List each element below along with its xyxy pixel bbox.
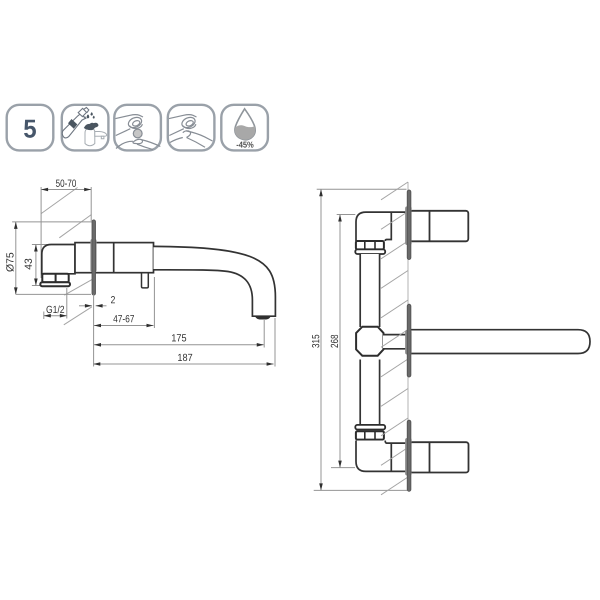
spout bar right view (410, 330, 590, 354)
top hub right view (405, 206, 412, 245)
dimension 315 (312, 189, 407, 490)
bottom union nut right view (356, 431, 384, 439)
extension line from plate down (93, 295, 95, 367)
middle wall plate right view (407, 304, 411, 377)
icon box 5-year (7, 105, 54, 151)
bottom collar right view (355, 425, 385, 430)
tee octagon right view (356, 327, 383, 356)
spout left view (154, 246, 276, 316)
main body cylinder left view (75, 243, 154, 273)
dimension 43 (25, 245, 49, 286)
wall plate left view (92, 220, 96, 295)
top handle cylinder right view (410, 211, 469, 242)
icon touch spout (168, 105, 215, 151)
icon water saving drop -45% (221, 105, 268, 151)
dimension 2 (plate thickness) (79, 296, 115, 308)
top union nut right view (356, 241, 384, 249)
dimension diameter 75 (6, 222, 93, 295)
dimension 175 (94, 320, 264, 348)
dimension 268 (331, 215, 356, 468)
wall hatching right view (381, 182, 408, 495)
union nut left view (42, 274, 68, 282)
wall hub left view (90, 239, 96, 272)
inlet flange left view (40, 282, 70, 286)
spout connector right view (383, 335, 406, 349)
riser pipe lower right view (360, 360, 379, 426)
bottom handle cylinder right view (410, 442, 469, 472)
set screw left view (142, 273, 149, 288)
icon cleaning spray (62, 105, 109, 151)
wall hatching left view (41, 188, 92, 325)
wall line right view (407, 182, 409, 491)
riser pipe upper right view (360, 254, 379, 327)
top wall plate right view (407, 190, 411, 260)
dimension 187 (93, 318, 275, 367)
icon aerator ball (114, 105, 161, 151)
dimension 47-67 (94, 277, 154, 328)
bottom wall plate right view (407, 420, 411, 491)
middle hub right view (405, 330, 412, 355)
bottom elbow right view (356, 441, 408, 472)
top elbow right view (356, 212, 408, 241)
elbow body left view (42, 245, 75, 274)
top collar right view (355, 249, 385, 254)
bottom hub right view (405, 438, 412, 476)
dimension G1/2 (44, 288, 67, 319)
dimension 50-70 (41, 180, 91, 278)
aerator tip left view (255, 316, 271, 319)
